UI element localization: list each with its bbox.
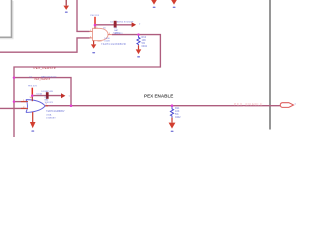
svg-text:2: 2 — [23, 107, 24, 109]
svg-text:1G08: 1G08 — [104, 38, 110, 40]
svg-text:0: 0 — [295, 104, 297, 106]
svg-text:1G08DBV: 1G08DBV — [46, 118, 56, 120]
svg-text:PEX 3V3: PEX 3V3 — [28, 85, 37, 87]
svg-text:PEX_PERST#: PEX_PERST# — [34, 66, 56, 70]
svg-text:1D: 1D — [103, 27, 106, 29]
svg-text:BAT54 SOD323F: BAT54 SOD323F — [117, 20, 134, 23]
svg-text:1: 1 — [23, 100, 24, 102]
svg-text:GND: GND — [97, 41, 102, 43]
svg-text:PEX_ENABLE: PEX_ENABLE — [234, 102, 263, 106]
svg-text:74AHC1G08DBVR: 74AHC1G08DBVR — [101, 43, 126, 46]
svg-text:U10A: U10A — [37, 93, 43, 96]
svg-text:0402: 0402 — [175, 116, 181, 119]
svg-text:0: 0 — [139, 23, 141, 25]
svg-text:3: 3 — [109, 33, 110, 35]
svg-text:PEX ENABLE: PEX ENABLE — [144, 93, 173, 98]
svg-text:BAT54 SOD123: BAT54 SOD123 — [41, 75, 57, 78]
svg-text:1: 1 — [90, 30, 91, 32]
svg-text:0402: 0402 — [142, 45, 148, 48]
svg-text:PEX 3V3: PEX 3V3 — [90, 15, 99, 17]
svg-text:D1 BAT54W: D1 BAT54W — [41, 90, 54, 93]
svg-text:PEX_PERST#: PEX_PERST# — [35, 78, 51, 81]
svg-text:14: 14 — [30, 97, 32, 99]
svg-text:74AHC1G08DBV: 74AHC1G08DBV — [46, 110, 65, 113]
svg-text:74AHC: 74AHC — [113, 31, 120, 34]
svg-text:U10A: U10A — [46, 113, 52, 116]
svg-text:2: 2 — [90, 36, 91, 38]
svg-text:5: 5 — [96, 27, 97, 29]
svg-text:3: 3 — [46, 104, 47, 106]
svg-text:D2: D2 — [110, 21, 114, 23]
